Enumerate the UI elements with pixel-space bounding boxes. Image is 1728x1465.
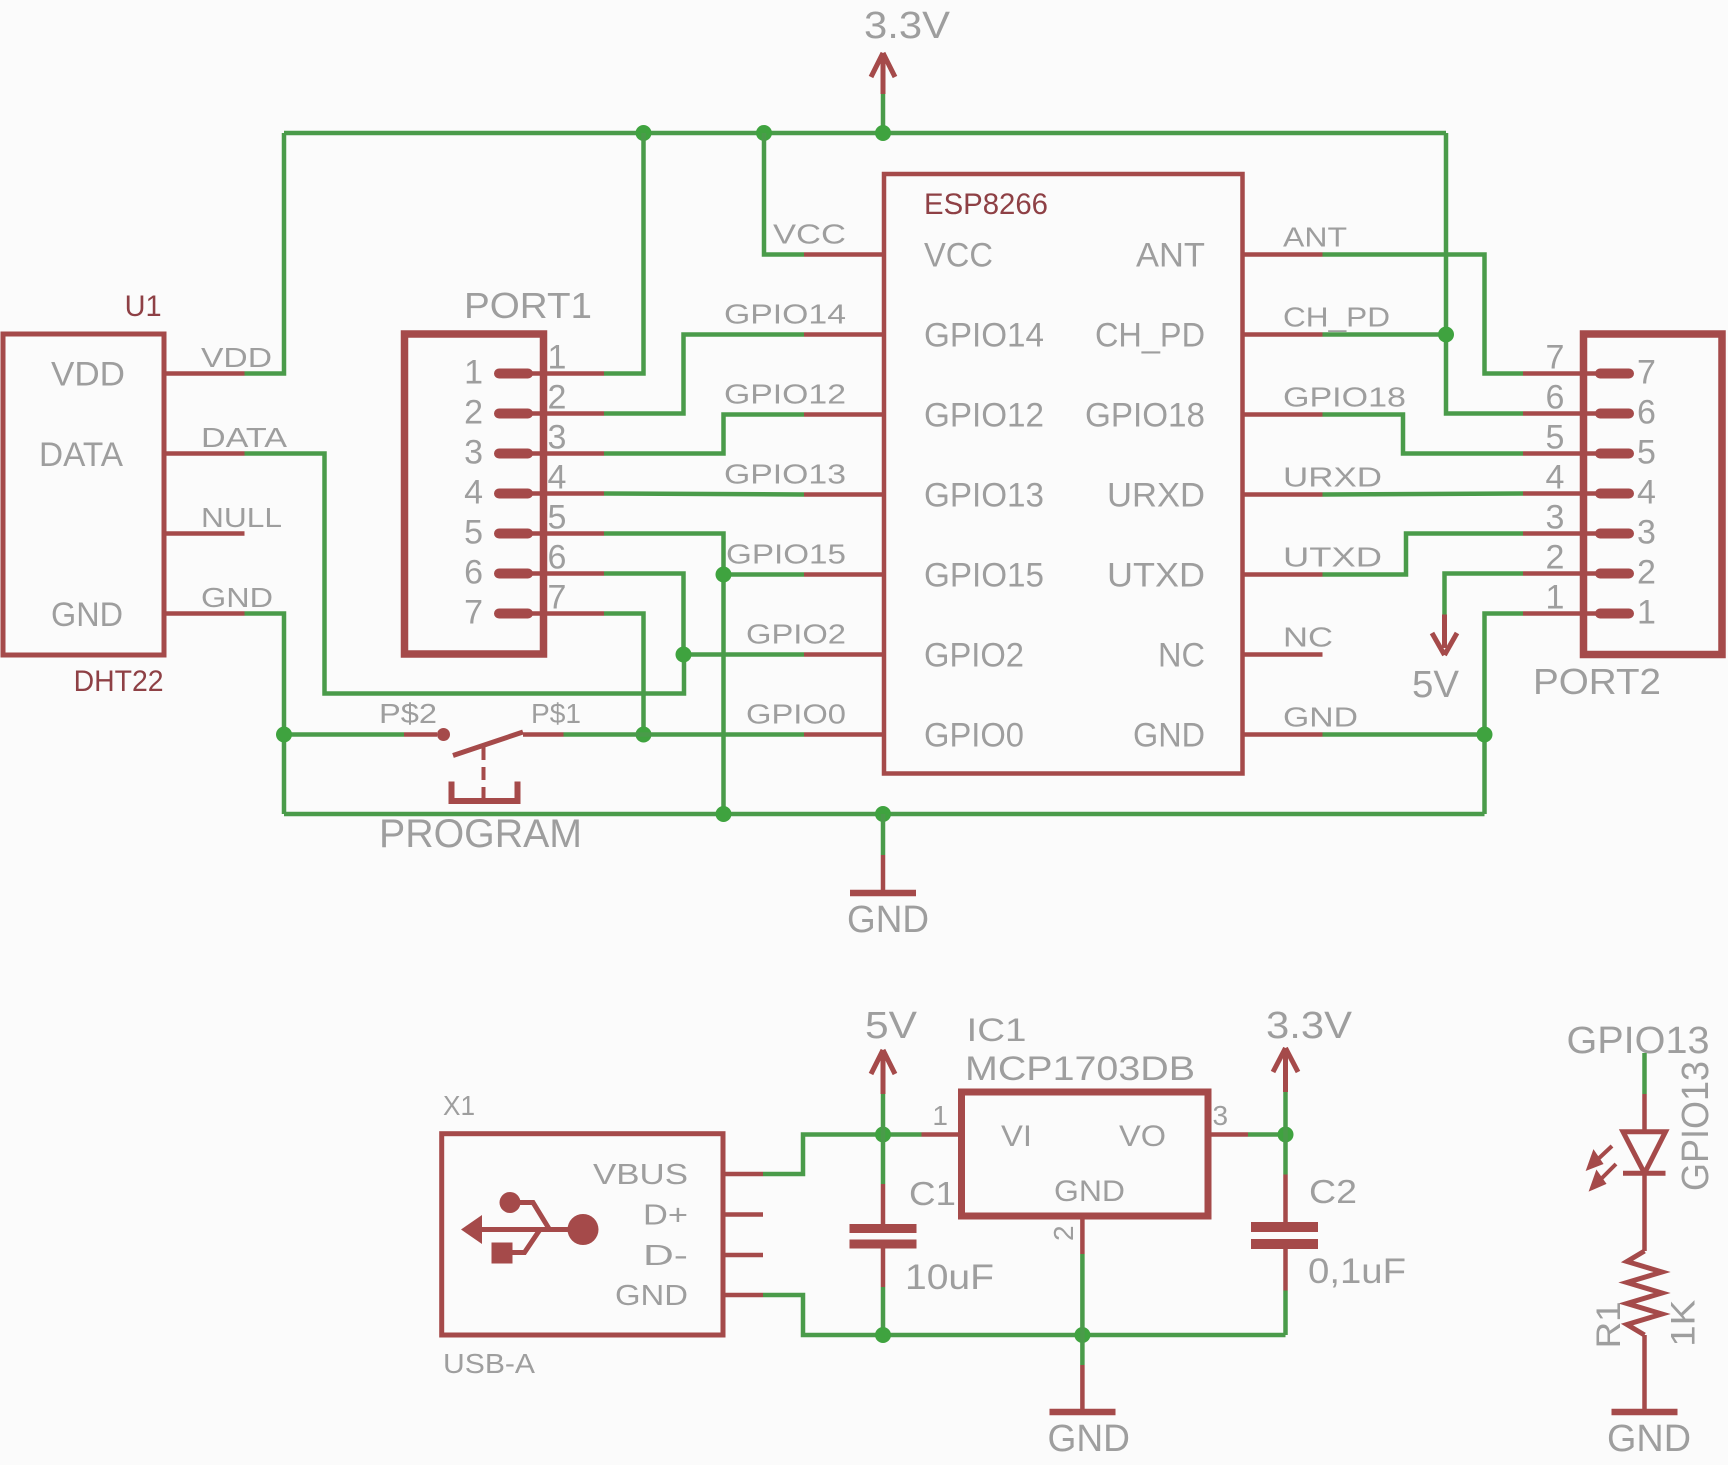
svg-text:D-: D- xyxy=(643,1240,688,1272)
switch button bracket xyxy=(452,782,518,802)
svg-text:7: 7 xyxy=(1546,339,1565,377)
junction 3.3V bus / 3.3V arrow xyxy=(875,125,891,141)
svg-text:ANT: ANT xyxy=(1283,222,1347,253)
IC1 pin 2 (GND) xyxy=(1080,1216,1085,1254)
wire IC1 GND to bus xyxy=(1080,1254,1085,1335)
svg-text:VDD: VDD xyxy=(201,342,272,373)
svg-text:GND: GND xyxy=(1133,717,1205,755)
svg-text:GPIO18: GPIO18 xyxy=(1283,382,1406,413)
PORT1 pin 7 stub xyxy=(499,609,528,619)
wire PORT1 pin5 to GPIO15 xyxy=(604,534,724,575)
wire PORT1 pin7 to GPIO0 xyxy=(604,614,644,735)
svg-text:7: 7 xyxy=(464,594,483,632)
supply symbol 3.3V (arrow up) xyxy=(871,53,895,94)
ESP pin GPIO14 (left) xyxy=(804,332,884,337)
R1 bottom lead xyxy=(1642,1335,1647,1409)
svg-text:DHT22: DHT22 xyxy=(74,665,164,698)
connector PORT1 box xyxy=(405,334,544,654)
wire ESP VCC riser xyxy=(764,133,804,255)
svg-text:5: 5 xyxy=(464,514,483,552)
PORT2 pin 6 lead xyxy=(1523,411,1600,416)
C1 bottom lead xyxy=(881,1249,886,1288)
svg-text:1K: 1K xyxy=(1665,1299,1703,1346)
PORT1 pin 4 stub xyxy=(499,489,528,499)
wire PORT1 pin3 to GPIO12 xyxy=(604,415,804,454)
ESP pin ANT (right) xyxy=(1243,252,1323,257)
junction CH_PD / 3.3V xyxy=(1438,327,1454,343)
PORT2 pin 4 lead xyxy=(1523,491,1600,496)
wire CH_PD to 3.3V riser xyxy=(1323,332,1447,337)
PORT1 pin 1 stub xyxy=(499,369,528,379)
ESP pin UTXD (right) xyxy=(1243,572,1323,577)
svg-text:7: 7 xyxy=(548,579,567,617)
svg-text:VBUS: VBUS xyxy=(593,1159,688,1191)
C2 top lead xyxy=(1283,1175,1288,1223)
svg-text:1: 1 xyxy=(548,339,567,377)
switch pin P$2 xyxy=(404,732,437,737)
wire P$2 net xyxy=(284,732,404,737)
PORT1 pin 2 lead xyxy=(528,411,604,416)
ESP pin URXD (right) xyxy=(1243,492,1323,497)
ground symbol stem (bottom) xyxy=(1080,1365,1085,1409)
svg-text:GPIO2: GPIO2 xyxy=(746,619,846,650)
PORT2 pin 7 stub xyxy=(1600,369,1629,379)
ESP pin GPIO13 (left) xyxy=(804,492,884,497)
PORT2 pin 2 lead xyxy=(1523,571,1600,576)
wire GPIO15 to ESP xyxy=(724,572,805,577)
pin D+ of X1 xyxy=(723,1212,763,1217)
PORT1 pin 3 stub xyxy=(499,449,528,459)
PORT2 pin 2 stub xyxy=(1600,569,1629,579)
wire 3.3V bus (top) xyxy=(284,131,1446,136)
svg-text:3: 3 xyxy=(548,419,567,457)
svg-text:1: 1 xyxy=(1546,579,1565,617)
wire PORT2 pin1 riser xyxy=(1485,614,1524,815)
wire GPIO18 to PORT2 pin5 xyxy=(1323,415,1524,454)
svg-text:4: 4 xyxy=(1637,474,1656,512)
wire P$1 to GPIO0 xyxy=(564,732,644,737)
PORT2 pin 4 stub xyxy=(1600,489,1629,499)
svg-text:5V: 5V xyxy=(1412,664,1460,706)
svg-text:P$2: P$2 xyxy=(379,698,437,729)
junction GND bus / C1 xyxy=(875,1327,891,1343)
IC1 pin 1 (VI) xyxy=(922,1132,962,1137)
pin VDD of U1 xyxy=(164,371,245,376)
PORT1 pin 6 stub xyxy=(499,569,528,579)
ESP pin CH_PD (right) xyxy=(1243,332,1323,337)
svg-text:PORT1: PORT1 xyxy=(464,285,592,326)
wire bus to GND symbol (bottom) xyxy=(1080,1335,1085,1365)
wire GPIO2 to ESP xyxy=(684,652,805,657)
C2 bottom lead xyxy=(1283,1249,1288,1291)
svg-text:3.3V: 3.3V xyxy=(1266,1005,1353,1047)
wire 5V node to C1 xyxy=(881,1135,886,1185)
svg-text:1: 1 xyxy=(1637,594,1656,632)
svg-text:GPIO2: GPIO2 xyxy=(924,637,1024,675)
wire C1 to GND bus xyxy=(881,1287,886,1335)
wire 3.3V arrow stem xyxy=(881,94,886,133)
svg-text:GND: GND xyxy=(201,582,273,613)
LED cathode to R1 lead xyxy=(1642,1173,1647,1251)
pin VBUS of X1 xyxy=(723,1172,763,1177)
svg-text:UTXD: UTXD xyxy=(1283,542,1382,573)
wire GPIO13 to LED xyxy=(1642,1053,1647,1094)
switch actuator dashed line xyxy=(482,747,486,799)
svg-text:IC1: IC1 xyxy=(967,1012,1027,1048)
junction 5V / C1 xyxy=(875,1127,891,1143)
svg-text:1: 1 xyxy=(464,354,483,392)
svg-text:2: 2 xyxy=(1546,539,1565,577)
svg-text:VI: VI xyxy=(1001,1120,1032,1153)
PORT2 pin 7 lead xyxy=(1523,371,1600,376)
svg-text:D+: D+ xyxy=(643,1200,688,1232)
wire PORT1 pin6 to GPIO2 xyxy=(604,574,684,655)
svg-text:3: 3 xyxy=(1213,1100,1229,1131)
PORT1 pin 4 lead xyxy=(528,491,604,496)
ESP pin GPIO2 (left) xyxy=(804,652,884,657)
PORT2 pin 1 lead xyxy=(1523,611,1600,616)
ground symbol stem (main) xyxy=(881,855,886,891)
svg-text:NC: NC xyxy=(1158,637,1205,675)
svg-text:P$1: P$1 xyxy=(531,698,581,729)
supply symbol 3.3V bottom (arrow up) xyxy=(1273,1048,1298,1092)
svg-text:4: 4 xyxy=(548,459,567,497)
svg-text:GPIO13: GPIO13 xyxy=(1675,1061,1717,1191)
ESP pin NC (right) xyxy=(1243,652,1323,657)
ESP pin GPIO18 (right) xyxy=(1243,412,1323,417)
LED LED1 symbol xyxy=(1623,1132,1666,1174)
C1 top lead xyxy=(881,1184,886,1224)
wire 5V to PORT2 pin2 xyxy=(1445,574,1524,615)
capacitor C2 plates xyxy=(1251,1222,1318,1249)
svg-text:2: 2 xyxy=(1048,1225,1079,1241)
svg-text:VDD: VDD xyxy=(51,356,125,394)
pin DATA of U1 xyxy=(164,451,245,456)
wire URXD to PORT2 pin4 xyxy=(1323,494,1524,495)
capacitor C1 plates xyxy=(850,1224,917,1249)
junction GPIO15 xyxy=(716,567,732,583)
svg-text:6: 6 xyxy=(1637,394,1656,432)
sensor U1 DHT22 box xyxy=(3,334,164,655)
svg-text:VCC: VCC xyxy=(924,237,993,275)
svg-text:6: 6 xyxy=(548,539,567,577)
wire 3.3V node to C2 xyxy=(1283,1135,1288,1175)
svg-text:10uF: 10uF xyxy=(905,1258,994,1297)
wire VDD net to 3.3V bus xyxy=(245,133,285,374)
svg-text:GPIO0: GPIO0 xyxy=(746,699,846,730)
PORT2 pin 3 lead xyxy=(1523,531,1600,536)
PORT2 pin 5 lead xyxy=(1523,451,1600,456)
svg-text:PROGRAM: PROGRAM xyxy=(379,812,582,856)
wire VO to 3.3V node xyxy=(1248,1132,1286,1137)
ESP pin GPIO0 (left) xyxy=(804,732,884,737)
svg-text:ANT: ANT xyxy=(1136,237,1205,275)
wire GND bus (bottom) xyxy=(763,1295,1286,1335)
svg-text:ESP8266: ESP8266 xyxy=(924,188,1048,221)
pin D- of X1 xyxy=(723,1253,763,1258)
PORT1 pin 6 lead xyxy=(528,571,604,576)
PORT1 pin 7 lead xyxy=(528,611,604,616)
junction 3.3V bus / ESP VCC riser xyxy=(756,125,772,141)
svg-text:VO: VO xyxy=(1119,1120,1166,1153)
ground symbol bar (LED) xyxy=(1612,1409,1678,1416)
svg-text:GND: GND xyxy=(847,899,929,941)
wire UTXD to PORT2 pin3 xyxy=(1323,534,1524,575)
PORT1 pin 3 lead xyxy=(528,451,604,456)
svg-text:GND: GND xyxy=(1048,1418,1131,1460)
svg-text:GPIO0: GPIO0 xyxy=(924,717,1024,755)
svg-text:GPIO13: GPIO13 xyxy=(1567,1020,1710,1062)
wire 3.3V riser to PORT2 pin6 xyxy=(1446,133,1523,414)
svg-text:5: 5 xyxy=(548,499,567,537)
supply symbol 5V (arrow down) xyxy=(1432,615,1457,656)
svg-text:GPIO14: GPIO14 xyxy=(924,317,1044,355)
junction ESP GND / riser xyxy=(1477,727,1493,743)
svg-text:GND: GND xyxy=(1607,1418,1691,1460)
wire ANT to PORT2 pin7 xyxy=(1323,255,1524,374)
LED top lead xyxy=(1642,1094,1647,1132)
connector PORT2 box xyxy=(1584,334,1723,655)
PORT1 pin 5 stub xyxy=(499,529,528,539)
svg-text:4: 4 xyxy=(464,474,483,512)
svg-text:7: 7 xyxy=(1637,354,1656,392)
regulator IC1 box xyxy=(962,1092,1209,1216)
svg-text:GPIO18: GPIO18 xyxy=(1085,397,1205,435)
svg-text:MCP1703DB: MCP1703DB xyxy=(965,1050,1195,1088)
junction 3.3V bus / PORT1 pin1 riser xyxy=(636,125,652,141)
PORT1 pin 5 lead xyxy=(528,531,604,536)
svg-text:2: 2 xyxy=(464,394,483,432)
module ESP8266 box xyxy=(884,174,1243,774)
wire PORT1 pin1 to 3.3V bus xyxy=(604,133,644,374)
svg-text:GPIO13: GPIO13 xyxy=(724,459,846,490)
svg-text:5: 5 xyxy=(1546,419,1565,457)
junction GND bus / IC1 GND xyxy=(1074,1327,1090,1343)
PORT2 pin 6 stub xyxy=(1600,409,1629,419)
USB logo xyxy=(461,1192,599,1264)
junction P$2 / GND riser xyxy=(276,727,292,743)
PORT1 pin 2 stub xyxy=(499,409,528,419)
LED emission arrows xyxy=(1589,1146,1616,1188)
connector X1 USB-A box xyxy=(442,1134,723,1335)
svg-text:GPIO12: GPIO12 xyxy=(924,397,1044,435)
svg-text:GND: GND xyxy=(1054,1175,1125,1208)
svg-text:4: 4 xyxy=(1546,459,1565,497)
svg-text:3: 3 xyxy=(464,434,483,472)
wire GPIO15 pulldown riser xyxy=(721,575,726,815)
wire GND symbol stem xyxy=(881,814,886,855)
svg-text:DATA: DATA xyxy=(201,422,287,453)
PORT2 pin 5 stub xyxy=(1600,449,1629,459)
ESP pin GPIO15 (left) xyxy=(804,572,884,577)
PORT1 pin 1 lead xyxy=(528,371,604,376)
svg-text:C1: C1 xyxy=(909,1175,956,1212)
pin GND of U1 xyxy=(164,611,245,616)
wire C2 to GND bus xyxy=(1283,1291,1288,1336)
junction GPIO0 / P$1 xyxy=(636,727,652,743)
ground symbol bar (bottom) xyxy=(1050,1409,1116,1416)
junction GPIO2 / DATA xyxy=(676,647,692,663)
wire GND bus (main) xyxy=(284,812,1485,817)
svg-text:2: 2 xyxy=(548,379,567,417)
svg-text:U1: U1 xyxy=(125,290,162,323)
svg-text:GPIO15: GPIO15 xyxy=(924,557,1044,595)
svg-text:GPIO12: GPIO12 xyxy=(724,379,846,410)
ESP pin GND (right) xyxy=(1243,732,1323,737)
pin GND of X1 xyxy=(723,1293,763,1298)
ESP pin VCC (left) xyxy=(804,252,884,257)
wire VBUS to IC1 VI xyxy=(763,1135,922,1175)
svg-text:C2: C2 xyxy=(1309,1173,1357,1210)
svg-text:URXD: URXD xyxy=(1283,462,1382,493)
resistor R1 xyxy=(1627,1251,1662,1335)
svg-text:3: 3 xyxy=(1637,514,1656,552)
PORT2 pin 3 stub xyxy=(1600,529,1629,539)
junction GND bus / GND symbol xyxy=(875,806,891,822)
svg-text:CH_PD: CH_PD xyxy=(1095,317,1205,355)
svg-text:5V: 5V xyxy=(865,1005,918,1047)
junction 3.3V / C2 xyxy=(1278,1127,1294,1143)
svg-text:USB-A: USB-A xyxy=(443,1348,535,1379)
svg-text:5: 5 xyxy=(1637,434,1656,472)
svg-text:NC: NC xyxy=(1283,622,1333,653)
svg-text:X1: X1 xyxy=(443,1090,475,1121)
switch contact dot P$2 xyxy=(437,728,450,741)
svg-text:CH_PD: CH_PD xyxy=(1283,302,1390,333)
svg-text:3.3V: 3.3V xyxy=(864,5,951,47)
wire GPIO0 to ESP xyxy=(644,732,805,737)
svg-text:1: 1 xyxy=(932,1100,948,1131)
svg-text:VCC: VCC xyxy=(773,219,846,250)
supply symbol 5V bottom (arrow up) xyxy=(871,1050,895,1094)
wire 5V arrow stem (bottom) xyxy=(881,1094,886,1135)
svg-text:GPIO14: GPIO14 xyxy=(724,299,846,330)
svg-text:UTXD: UTXD xyxy=(1107,557,1205,595)
wire GND net from U1 xyxy=(245,614,285,735)
wire GND net down to bus xyxy=(282,735,287,815)
svg-text:0,1uF: 0,1uF xyxy=(1308,1252,1406,1291)
svg-text:GND: GND xyxy=(615,1280,688,1312)
svg-text:GPIO15: GPIO15 xyxy=(726,539,846,570)
pin NULL of U1 (stub) xyxy=(164,531,245,536)
switch lever xyxy=(453,732,523,756)
svg-text:NULL: NULL xyxy=(201,502,282,533)
svg-text:GND: GND xyxy=(1283,702,1358,733)
svg-text:R1: R1 xyxy=(1590,1301,1628,1348)
svg-text:2: 2 xyxy=(1637,554,1656,592)
wire 3.3V arrow stem (bottom) xyxy=(1283,1092,1288,1135)
ground symbol bar (main) xyxy=(850,890,916,897)
svg-text:GPIO13: GPIO13 xyxy=(924,477,1044,515)
wire PORT1 pin4 to GPIO13 xyxy=(604,494,804,495)
svg-text:DATA: DATA xyxy=(39,436,123,474)
wire ESP GND to PORT2 pin1 riser xyxy=(1323,732,1485,737)
switch pin P$1 xyxy=(523,732,564,737)
PORT2 pin 1 stub xyxy=(1600,609,1629,619)
svg-text:GND: GND xyxy=(51,596,123,634)
svg-text:6: 6 xyxy=(464,554,483,592)
wire DATA net xyxy=(245,454,685,694)
IC1 pin 3 (VO) xyxy=(1208,1132,1248,1137)
svg-text:PORT2: PORT2 xyxy=(1533,661,1661,702)
svg-text:6: 6 xyxy=(1546,379,1565,417)
junction GND bus / GPIO15 pulldown xyxy=(716,806,732,822)
svg-text:URXD: URXD xyxy=(1107,477,1205,515)
ESP pin GPIO12 (left) xyxy=(804,412,884,417)
svg-text:3: 3 xyxy=(1546,499,1565,537)
wire PORT1 pin2 to GPIO14 xyxy=(604,335,804,414)
